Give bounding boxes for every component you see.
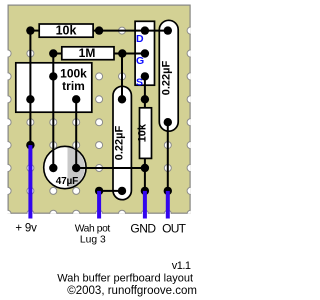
wire col5 vertical xyxy=(121,54,123,100)
node C3 top xyxy=(164,26,172,34)
node Q1 drain xyxy=(141,26,149,34)
capacitor C2 0.22uF middle stadium xyxy=(113,86,131,199)
wire row0 left lead xyxy=(30,30,39,32)
perfboard xyxy=(4,5,194,218)
wire row7 horizontal xyxy=(99,190,122,192)
svg-text:Wah pot: Wah pot xyxy=(75,223,111,234)
svg-text:100k: 100k xyxy=(60,66,87,80)
node C1 plus xyxy=(49,164,57,172)
footer text xyxy=(57,260,197,297)
node R3 top xyxy=(141,95,149,103)
wire col3 vertical xyxy=(75,99,77,168)
node 9v feed xyxy=(26,141,34,149)
svg-text:0.22µF: 0.22µF xyxy=(160,60,172,95)
node R1 right xyxy=(95,26,103,34)
svg-text:1M: 1M xyxy=(79,46,96,60)
wire row0 jumper to cap xyxy=(93,30,168,32)
node Q1 gate xyxy=(141,49,149,57)
node C2 top xyxy=(118,95,126,103)
holes xyxy=(27,27,171,194)
svg-text:10k: 10k xyxy=(137,123,149,142)
node C1 minus xyxy=(72,164,80,172)
node Q1 source xyxy=(141,72,149,80)
resistor R1 10k box xyxy=(39,24,93,37)
resistor R3 10k vertical box xyxy=(140,108,152,159)
node R2 right xyxy=(118,49,126,57)
svg-text:Wah buffer perfboard layout: Wah buffer perfboard layout xyxy=(57,273,193,285)
wire GND blue xyxy=(143,191,147,219)
pin labels D G S xyxy=(136,33,144,89)
svg-text:v1.1: v1.1 xyxy=(172,260,191,272)
svg-text:trim: trim xyxy=(62,79,85,93)
wire row1 1M left lead xyxy=(53,53,62,55)
component value labels xyxy=(56,23,173,187)
svg-text:S: S xyxy=(136,77,143,89)
edge half-holes right xyxy=(187,27,194,34)
blue offboard wires xyxy=(30,145,167,218)
wire OUT blue xyxy=(166,191,170,219)
wire +9v blue xyxy=(28,145,32,218)
svg-text:GND: GND xyxy=(130,221,156,235)
svg-text:47µF: 47µF xyxy=(56,176,78,187)
wire col6 R3 to GND xyxy=(144,158,146,191)
svg-text:+ 9v: + 9v xyxy=(15,222,37,234)
node trim lug3 xyxy=(72,95,80,103)
wire col6 source to R3 xyxy=(144,76,146,107)
wire row1 1M right to gate xyxy=(114,53,145,55)
svg-text:0.22µF: 0.22µF xyxy=(114,125,126,160)
node wah pot feed xyxy=(95,187,103,195)
solder dots xyxy=(26,26,172,195)
capacitor C3 0.22uF right stadium xyxy=(159,20,178,131)
node OUT feed xyxy=(164,187,172,195)
node trim wiper xyxy=(49,72,57,80)
edge half-holes bottom xyxy=(4,210,11,217)
node C2 bottom xyxy=(118,187,126,195)
node trim lug1 xyxy=(26,95,34,103)
svg-text:OUT: OUT xyxy=(162,221,187,235)
wires xyxy=(30,31,167,191)
wire col7 cap to OUT xyxy=(167,122,169,191)
node C3 bottom xyxy=(164,118,172,126)
svg-text:G: G xyxy=(136,55,144,67)
resistor R2 1M box xyxy=(62,47,114,60)
svg-text:©2003, runoffgroove.com: ©2003, runoffgroove.com xyxy=(67,285,197,297)
svg-text:D: D xyxy=(136,33,144,45)
node R2 left xyxy=(49,49,57,57)
wire wah pot blue xyxy=(97,191,101,219)
edge half-holes left xyxy=(4,27,194,217)
wire row6 horizontal xyxy=(76,167,145,169)
node GND feed xyxy=(141,187,149,195)
wire col1 vertical xyxy=(29,31,31,146)
node R1 left xyxy=(26,26,34,34)
capacitor C1 47uF electrolytic circle xyxy=(44,146,86,188)
trimpot VR1 100k box xyxy=(16,63,92,112)
svg-text:10k: 10k xyxy=(56,23,77,37)
node R3 bottom xyxy=(141,164,149,172)
svg-text:Lug 3: Lug 3 xyxy=(80,235,106,246)
wire col2 vertical xyxy=(52,54,54,169)
connection labels xyxy=(15,221,186,245)
transistor Q1 box xyxy=(135,21,154,85)
